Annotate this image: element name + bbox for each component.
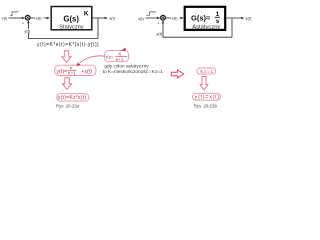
svg-text:y(t): y(t) [156,31,162,36]
svg-text:K: K [84,10,89,17]
node y(t) feedback label [24,28,31,33]
wire block to output [92,17,106,19]
boxed formula y(t)=K/(K+1)*x(t) [55,65,96,75]
svg-text:gdy człon astatyczny: gdy człon astatyczny [104,64,149,70]
annotation box Kz=1 [197,68,216,74]
curved connector Kz box to boxed formula [79,56,104,63]
svg-text:x(t): x(t) [2,15,8,20]
node e(t) label [171,15,180,21]
hollow down arrow 2 [62,78,71,90]
step input symbol [146,12,156,15]
summing junction [25,15,30,20]
svg-text:e(t): e(t) [172,16,179,21]
svg-text:Statyczny: Statyczny [59,24,83,30]
wire input to summer [8,17,23,19]
svg-text:G(s): G(s) [63,15,79,24]
svg-text:y(t): y(t) [246,16,252,21]
svg-text:y(t): y(t) [24,28,30,33]
svg-text:y(t)=Kz*x(t): y(t)=Kz*x(t) [58,95,87,101]
svg-text:K: K [118,51,121,56]
wire block to output [225,17,242,19]
boxed formula y(t)=Kz*x(t) [57,94,89,102]
wire summer to block [30,17,48,19]
boxed formula y(t)=x(t) [192,93,220,100]
svg-text:Rys. 20-22a: Rys. 20-22a [56,103,80,108]
svg-text:x(t): x(t) [84,69,92,75]
svg-text:G(s)=: G(s)= [191,14,211,23]
block G(s)=1/s astatyczny [185,7,226,31]
svg-text:y(t): y(t) [109,16,115,21]
svg-text:Rys. 20-22b: Rys. 20-22b [194,103,218,108]
svg-text:x(t): x(t) [138,16,144,21]
svg-text:Astatyczny: Astatyczny [192,24,220,30]
step input symbol [10,12,18,16]
node e(t) label [35,15,44,21]
svg-text:y(t)=K*e(t)=K*[x(t)-y(t)]: y(t)=K*e(t)=K*[x(t)-y(t)] [37,42,99,48]
svg-text:y(t)=x(t): y(t)=x(t) [195,95,220,101]
block G(s) statyczny [51,7,92,31]
svg-text:Kz=1: Kz=1 [200,69,213,74]
hollow down arrow 1 [62,51,71,63]
summing junction [161,15,166,20]
annotation box Kz=K/(K+1) [105,51,129,62]
svg-text:1: 1 [216,11,220,18]
wire input to summer [146,17,159,19]
svg-text:K+1: K+1 [116,57,124,62]
wire summer to block [166,17,182,19]
svg-text:e(t): e(t) [36,16,43,21]
svg-text:Kz=: Kz= [106,54,114,59]
red arrowhead into Kz box [121,48,126,51]
feedback wire [163,18,232,37]
node y(t) feedback label [156,31,163,36]
hollow down arrow 3 [200,76,208,89]
svg-text:K+1: K+1 [68,71,76,76]
hollow right arrow [171,70,184,78]
svg-text:y(t)=: y(t)= [57,69,68,75]
feedback wire [28,18,98,39]
svg-text:to K=nieskończoność i Kz=1: to K=nieskończoność i Kz=1 [103,69,164,75]
